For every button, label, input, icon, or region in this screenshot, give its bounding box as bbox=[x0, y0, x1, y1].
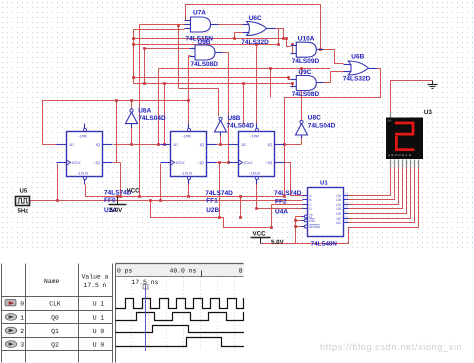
wire: U7A bottom input channel bbox=[134, 29, 185, 31]
wire: U8A out loop to FF0 D bbox=[43, 101, 132, 145]
svg-text:VCC: VCC bbox=[253, 230, 267, 237]
svg-text:U8A: U8A bbox=[138, 108, 151, 115]
svg-text:Name: Name bbox=[44, 278, 60, 285]
svg-text:1CLK: 1CLK bbox=[176, 161, 186, 165]
svg-text:8: 8 bbox=[239, 268, 243, 275]
svg-text:OD: OD bbox=[336, 207, 342, 211]
svg-text:74LS74D: 74LS74D bbox=[274, 190, 302, 197]
wire: clr/pre channel y196 bbox=[86, 185, 285, 197]
svg-text:74LS08D: 74LS08D bbox=[191, 61, 219, 68]
wire: U1 A input from FF2 ~Q bbox=[283, 163, 303, 196]
waveform row Q1 bbox=[5, 327, 17, 334]
clock source U5 5Hz bbox=[16, 197, 30, 206]
svg-text:U6C: U6C bbox=[249, 15, 262, 22]
svg-text:RBI: RBI bbox=[309, 219, 314, 223]
or-gate U6C 74LS32D bbox=[247, 22, 267, 36]
wire: VCC2 to U1 enable pins bbox=[261, 217, 296, 244]
wire: U7A mid input channel bbox=[140, 24, 185, 26]
svg-text:Q2: Q2 bbox=[51, 342, 59, 349]
svg-text:0 ps: 0 ps bbox=[117, 267, 133, 274]
and-gate U10A 74LS09D bbox=[296, 42, 316, 57]
svg-text:U3: U3 bbox=[424, 109, 432, 116]
wire: channel y68 (U8C out) bbox=[159, 68, 331, 70]
wire: U6C in2 riser bbox=[235, 33, 243, 39]
wire: U6B out feedback down-left bbox=[285, 69, 381, 197]
waveform trace Q1 bbox=[116, 326, 244, 333]
svg-text:U6B: U6B bbox=[351, 54, 364, 61]
svg-text:U10A: U10A bbox=[298, 35, 315, 42]
svg-text:U 0: U 0 bbox=[93, 342, 105, 349]
svg-text:1CLK: 1CLK bbox=[72, 161, 82, 165]
flip-flop FF0 74LS74D U2A bbox=[67, 132, 103, 177]
and-gate U9C 74LS08D bbox=[296, 76, 316, 91]
svg-text:OB: OB bbox=[336, 198, 342, 202]
wire: U9C out to U6B in2 bbox=[317, 72, 344, 83]
wire: channel y83.5 bbox=[134, 83, 293, 85]
svg-text:https://blog.csdn.net/xiong_xi: https://blog.csdn.net/xiong_xin bbox=[320, 342, 462, 352]
svg-text:1Q: 1Q bbox=[199, 143, 204, 147]
wire: U10A out to U6B in1 bbox=[317, 50, 344, 64]
svg-text:U 1: U 1 bbox=[93, 314, 105, 321]
wires: U1 outputs to 7-seg pins bbox=[349, 168, 391, 196]
power VCC 5.0V (left) bbox=[117, 197, 119, 205]
waveform panel bbox=[2, 264, 116, 363]
wire: 7-seg pin8 to VCC net bbox=[296, 168, 419, 244]
and-gate U7A 74LS15N bbox=[191, 17, 211, 32]
wire: FF1 ~Q to FF2 clock bbox=[215, 162, 239, 164]
svg-text:Value a: Value a bbox=[82, 274, 109, 281]
svg-text:BI/RBO: BI/RBO bbox=[309, 225, 320, 229]
waveform row CLK bbox=[5, 300, 16, 306]
svg-text:74LS74D: 74LS74D bbox=[205, 190, 233, 197]
svg-text:~1PR: ~1PR bbox=[250, 135, 260, 139]
wire: channel y77.5 bbox=[134, 77, 289, 79]
svg-text:1CLK: 1CLK bbox=[244, 161, 254, 165]
wire: U9B input2 riser bbox=[189, 55, 191, 57]
svg-text:U4A: U4A bbox=[275, 209, 288, 216]
svg-text:74LS48N: 74LS48N bbox=[311, 240, 338, 247]
wire: misc band risers bbox=[243, 84, 245, 125]
svg-text:3: 3 bbox=[20, 342, 24, 349]
wire: U9B out to FF2 clock bbox=[220, 53, 229, 163]
svg-text:74LS32D: 74LS32D bbox=[241, 39, 269, 46]
svg-text:2: 2 bbox=[20, 328, 24, 335]
inverter U8A 74LS04D bbox=[126, 112, 138, 124]
decoder U1 74LS48N bbox=[308, 188, 344, 237]
waveform row Q2 bbox=[5, 341, 17, 348]
svg-text:0: 0 bbox=[20, 301, 24, 308]
svg-text:1D: 1D bbox=[69, 143, 74, 147]
svg-text:~1Q: ~1Q bbox=[93, 161, 100, 165]
svg-text:U9B: U9B bbox=[198, 39, 211, 46]
svg-text:~1CLR: ~1CLR bbox=[77, 171, 89, 175]
ground bbox=[432, 81, 434, 85]
svg-text:OE: OE bbox=[336, 212, 342, 216]
and-gate U9B 74LS08D bbox=[195, 45, 215, 60]
svg-text:FF0: FF0 bbox=[104, 197, 116, 204]
wire: U7A out to U6C in1 bbox=[217, 24, 243, 26]
waveform trace Q0 bbox=[116, 313, 244, 321]
svg-text:OG: OG bbox=[336, 221, 342, 225]
svg-text:U9C: U9C bbox=[298, 69, 311, 76]
wire: channel y38.8 bbox=[134, 38, 284, 40]
svg-text:~1CLR: ~1CLR bbox=[249, 171, 261, 175]
wire: U1 D input from FF2 clr bbox=[257, 185, 303, 209]
wire: FF0 ~Q riser bbox=[114, 162, 117, 164]
svg-text:FF2: FF2 bbox=[275, 198, 287, 205]
svg-text:U2B: U2B bbox=[206, 207, 219, 214]
wire: U8C input drop bbox=[301, 135, 303, 145]
wire: channel y44.1 bbox=[134, 44, 279, 46]
svg-text:CLK: CLK bbox=[49, 301, 61, 308]
svg-text:17.5 n: 17.5 n bbox=[83, 282, 106, 289]
svg-text:~1CLR: ~1CLR bbox=[181, 171, 193, 175]
svg-text:1Q: 1Q bbox=[267, 143, 272, 147]
svg-text:U8B: U8B bbox=[228, 115, 241, 122]
svg-text:ABCDEFG: ABCDEFG bbox=[388, 153, 413, 157]
svg-text:U5: U5 bbox=[20, 187, 28, 194]
wire: channel y88.6 (U8B out) bbox=[178, 26, 180, 89]
power VCC 5.0V (lower) bbox=[251, 237, 271, 239]
svg-text:U7A: U7A bbox=[193, 10, 206, 17]
svg-text:U1: U1 bbox=[320, 179, 328, 186]
wire: FF2 Q right bbox=[283, 144, 285, 146]
svg-text:~1Q: ~1Q bbox=[197, 161, 204, 165]
waveform row Q0 bbox=[5, 314, 17, 321]
or-gate U6B 74LS32D bbox=[348, 61, 368, 75]
inverter U8B 74LS04D bbox=[215, 120, 227, 131]
svg-text:1D: 1D bbox=[241, 143, 246, 147]
waveform trace CLK bbox=[116, 299, 244, 309]
svg-text:Q0: Q0 bbox=[51, 314, 59, 321]
time cursor 17.5ns bbox=[145, 285, 147, 351]
wire: FF1 Q to FF2 D / U8B input bbox=[215, 144, 239, 146]
svg-text:74LS32D: 74LS32D bbox=[343, 76, 371, 83]
junction dots bbox=[56, 199, 59, 202]
wire: FF1 D riser from y83.5 channel bbox=[164, 84, 166, 145]
svg-text:~1PR: ~1PR bbox=[182, 135, 192, 139]
wire: top feedback rectangle bbox=[186, 5, 321, 50]
svg-text:VCC: VCC bbox=[127, 187, 141, 194]
svg-text:74LS08D: 74LS08D bbox=[292, 91, 320, 98]
svg-text:U8C: U8C bbox=[308, 115, 321, 122]
wire: U6C out down to channel bbox=[276, 29, 284, 39]
svg-text:CA: CA bbox=[388, 119, 392, 122]
svg-text:5.0V: 5.0V bbox=[271, 239, 285, 246]
svg-text:U 0: U 0 bbox=[93, 328, 105, 335]
svg-text:~1Q: ~1Q bbox=[265, 161, 272, 165]
svg-text:40.0 ns: 40.0 ns bbox=[170, 267, 197, 274]
wire: clock distribution y200 bbox=[30, 200, 303, 202]
flip-flop FF1 74LS74D U2B bbox=[171, 132, 207, 177]
svg-text:1Q: 1Q bbox=[95, 143, 100, 147]
svg-text:74LS09D: 74LS09D bbox=[292, 58, 320, 65]
svg-text:1D: 1D bbox=[173, 143, 178, 147]
wire: left verticals bbox=[133, 30, 135, 84]
svg-text:74LS04D: 74LS04D bbox=[227, 123, 255, 130]
wire: U10A input risers bbox=[287, 39, 291, 47]
wire: U9B input1 channel bbox=[145, 48, 191, 50]
wire: FF2 top preset riser bbox=[256, 45, 258, 125]
svg-text:Q1: Q1 bbox=[51, 328, 59, 335]
svg-text:5Hz: 5Hz bbox=[18, 207, 29, 214]
flip-flop FF2 74LS74D U4A bbox=[239, 132, 275, 177]
svg-text:74LS04D: 74LS04D bbox=[308, 123, 336, 130]
waveform trace Q2 bbox=[116, 338, 244, 347]
svg-text:74LS04D: 74LS04D bbox=[138, 115, 166, 122]
wire: lower staircase to U1 C input bbox=[151, 201, 272, 228]
table grid bbox=[1, 264, 3, 363]
wire: FF0 Q to U8A input bbox=[114, 144, 165, 146]
svg-text:U 1: U 1 bbox=[93, 301, 105, 308]
svg-text:5.0V: 5.0V bbox=[110, 207, 124, 214]
wire: U9C input risers bbox=[289, 78, 291, 80]
svg-text:1: 1 bbox=[20, 314, 24, 321]
grid background bbox=[0, 0, 474, 252]
inverter U8C 74LS04D bbox=[296, 124, 308, 136]
svg-text:~1PR: ~1PR bbox=[78, 135, 88, 139]
svg-text:FF1: FF1 bbox=[206, 197, 218, 204]
wire: display CA to ground bbox=[391, 81, 433, 112]
